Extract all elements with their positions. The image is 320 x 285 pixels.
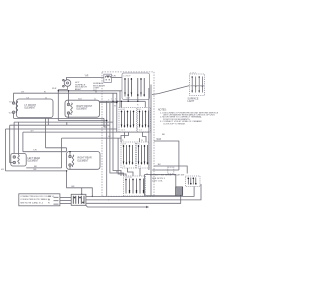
- svg-text:3 4: 3 4: [138, 166, 141, 168]
- label Y-R: [85, 74, 116, 77]
- svg-text:GY: GY: [31, 130, 35, 132]
- svg-text:W: W: [114, 106, 116, 108]
- svg-text:ELEMENT: ELEMENT: [28, 161, 39, 163]
- label Y-R2: [33, 150, 37, 152]
- label BK1: [34, 166, 37, 168]
- right bus vertical pair: [150, 85, 152, 197]
- svg-text:3: 3: [120, 99, 121, 101]
- element E1 LT FRONT box: [12, 99, 53, 118]
- tiny specks top bus: [111, 99, 121, 101]
- label GY: [52, 88, 77, 91]
- wire v x66.5: [66, 148, 68, 152]
- bottom right box relay: [145, 173, 186, 195]
- wire v x61.6: [61, 138, 63, 168]
- wire BK to right connector: [154, 166, 188, 174]
- svg-text:L1 L2 H: L1 L2 H: [125, 177, 132, 179]
- svg-text:LEFT REAR: LEFT REAR: [28, 157, 41, 160]
- wire Y-R continues: [111, 77, 122, 79]
- svg-text:2: 2: [115, 99, 116, 101]
- wire h y151.7 Y-R: [23, 151, 67, 153]
- wire h y120.5: [58, 120, 106, 122]
- element E3 LT REAR box: [11, 154, 26, 167]
- svg-text:1 2 3: 1 2 3: [126, 98, 130, 100]
- wire LF bottom down: [13, 113, 15, 118]
- ground arrow wire: [86, 205, 149, 208]
- wire down to terminal block: [67, 171, 93, 197]
- svg-text:GY: GY: [21, 91, 25, 93]
- infinite switch SW6 (bottom dual): [124, 176, 146, 196]
- note text block: [158, 110, 221, 136]
- svg-text:SEE NOTE 2 AND 3 L2: SEE NOTE 2 AND 3 L2: [20, 201, 44, 204]
- svg-text:R: R: [137, 105, 139, 107]
- right pin connector CN3: [186, 176, 201, 187]
- element E2 RT FRONT box: [65, 100, 100, 117]
- svg-text:L1 H: L1 H: [122, 144, 127, 146]
- wire RF top terminal up: [68, 91, 70, 104]
- wire v x5.5: [5, 129, 7, 171]
- bottom bus wires: [86, 187, 194, 197]
- wire h y138.1: [62, 137, 122, 139]
- svg-text:1 2 3: 1 2 3: [121, 130, 125, 132]
- wire W-R to right: [154, 141, 179, 170]
- wire diagonal to surface light connector: [152, 86, 189, 95]
- wire y170 stub: [152, 169, 179, 171]
- label RIGHT FRONT ELEMENT: [77, 106, 93, 111]
- wire sw1 to bus: [127, 97, 129, 102]
- svg-text:2 4: 2 4: [139, 130, 142, 132]
- wire h y125.2: [10, 124, 110, 126]
- label BK0: [1, 169, 37, 171]
- wire RF bottom: [68, 114, 70, 118]
- wire h y147: [46, 147, 67, 149]
- svg-text:COOKTOP TO HINGE.: COOKTOP TO HINGE.: [163, 123, 186, 125]
- wire h y118.4: [14, 117, 104, 119]
- label HOT SURFACE INDICATOR LIGHT: [75, 82, 105, 92]
- left bundle verticals: [104, 118, 107, 127]
- dark block right: [176, 187, 183, 195]
- wire h y122.1: [14, 121, 113, 123]
- wire v x14.1: [13, 122, 15, 153]
- wire top GY from RF: [58, 90, 122, 92]
- infinite switch SW3 (row2 right): [138, 108, 151, 133]
- wire Y-R from light: [67, 78, 104, 81]
- svg-text:Y-R: Y-R: [33, 150, 37, 152]
- inline connector P1: [104, 74, 112, 82]
- svg-text:1 2 3 4: 1 2 3 4: [190, 73, 196, 75]
- label LT FRONT ELEMENT: [9, 102, 37, 115]
- svg-text:GY: GY: [108, 136, 111, 138]
- wire h y167.9 BK: [26, 167, 61, 169]
- wire RR terminals: [69, 152, 71, 156]
- svg-text:R: R: [122, 140, 124, 142]
- svg-text:51: 51: [94, 99, 96, 101]
- wire h y129: [6, 128, 118, 130]
- svg-text:1 2: 1 2: [123, 166, 126, 168]
- junction dots: [58, 90, 139, 197]
- svg-text:W-R: W-R: [157, 139, 162, 141]
- svg-text:RIGHT FRONT: RIGHT FRONT: [77, 106, 93, 108]
- wire sw interconnects: [144, 101, 146, 107]
- svg-text:LIGHT: LIGHT: [188, 101, 195, 103]
- label W-R: [157, 139, 162, 141]
- element E4 RT REAR box: [67, 152, 101, 170]
- svg-text:SEE NOTE 3: SEE NOTE 3: [152, 178, 166, 180]
- svg-text:H1: H1: [1, 169, 5, 171]
- wire top W from LF: [14, 93, 117, 102]
- svg-text:L1 H1 P: L1 H1 P: [124, 76, 132, 78]
- wire h y170.9 BK: [6, 170, 67, 172]
- wire v x45.5: [45, 118, 47, 148]
- svg-text:DOUBLE LINE BREAK RELAY SW: DOUBLE LINE BREAK RELAY SW: [150, 173, 185, 176]
- wire v x22.9: [22, 132, 24, 152]
- wire v x18.5: [18, 122, 20, 155]
- wire pair from elements to switches: [100, 100, 146, 102]
- tiny labels near switches: [108, 100, 149, 202]
- svg-text:CODES PER NOTE TABLE N: CODES PER NOTE TABLE N: [20, 198, 50, 201]
- svg-text:Y-R: Y-R: [9, 102, 13, 104]
- infinite switch SW4 (row3 left): [121, 142, 136, 168]
- svg-text:H L: H L: [139, 109, 142, 111]
- label GY2: [31, 130, 35, 132]
- legend box: [19, 194, 60, 206]
- svg-text:W: W: [48, 199, 51, 201]
- label W: [21, 91, 98, 100]
- svg-text:W-R: W-R: [52, 88, 57, 90]
- wires legend to block: [60, 197, 71, 199]
- svg-text:ELEMENT: ELEMENT: [77, 109, 88, 111]
- terminal block TB1: [71, 194, 86, 205]
- svg-text:LT. FRONT: LT. FRONT: [25, 105, 37, 107]
- label SURFACE LIGHT: [188, 98, 199, 103]
- svg-text:W-R: W-R: [9, 113, 13, 115]
- svg-text:240V COIL: 240V COIL: [152, 181, 164, 183]
- wire h y132.1 GY: [23, 131, 149, 133]
- label LEFT REAR ELEMENT: [28, 157, 41, 163]
- svg-text:ELEMENT: ELEMENT: [78, 160, 89, 162]
- infinite switch SW5 (row3 right): [137, 142, 150, 168]
- label BK right: [158, 164, 161, 166]
- svg-text:BK: BK: [162, 134, 165, 136]
- wire v x66.8: [66, 122, 68, 125]
- small connector on wire: [168, 167, 174, 174]
- svg-text:ELEMENT: ELEMENT: [25, 108, 36, 110]
- svg-text:W: W: [141, 140, 143, 142]
- wire v x48.3: [47, 118, 49, 126]
- svg-text:1: 1: [111, 99, 112, 101]
- svg-text:R: R: [48, 203, 50, 205]
- svg-text:52: 52: [45, 98, 47, 100]
- label RIGHT REAR ELEMENT: [78, 157, 92, 163]
- infinite switch SW2 (row2 left): [119, 108, 137, 133]
- svg-text:Y-R: Y-R: [85, 74, 89, 77]
- surface light connector CN2: [190, 73, 205, 96]
- svg-text:RIGHT REAR: RIGHT REAR: [78, 157, 92, 160]
- switch assembly dashed outline: [102, 72, 154, 196]
- svg-text:W-R: W-R: [78, 99, 82, 101]
- indicator light L1: [58, 79, 70, 89]
- svg-text:H L: H L: [138, 144, 141, 146]
- svg-text:L1 H2: L1 H2: [120, 109, 125, 111]
- infinite switch SW1 (top): [122, 73, 150, 100]
- wire v x9.7: [10, 125, 13, 162]
- label BK2: [72, 186, 75, 188]
